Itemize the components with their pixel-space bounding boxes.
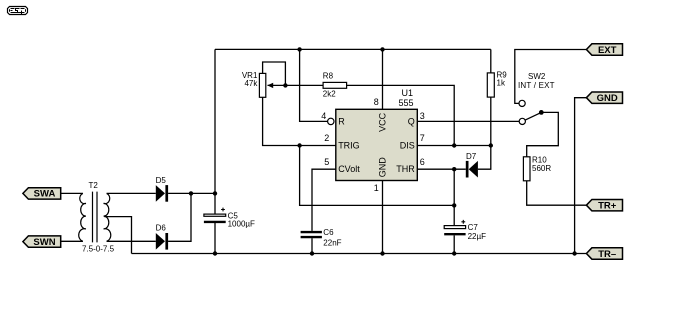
T2 primary coil bbox=[79, 193, 86, 241]
svg-text:D6: D6 bbox=[156, 224, 167, 233]
wire THR down to C7 bbox=[453, 169, 455, 225]
connector EXT bbox=[586, 44, 622, 55]
svg-text:560R: 560R bbox=[532, 164, 551, 173]
wire TRIG junction down to THR link bbox=[300, 146, 455, 206]
junction rail pin1 bbox=[380, 251, 384, 255]
connector TR+ bbox=[586, 200, 622, 211]
pin labels inside U1 bbox=[338, 112, 415, 177]
wire R8 to DIS bbox=[347, 85, 455, 145]
junction D5 line at C5 bbox=[213, 191, 217, 195]
wire GND tag drop bbox=[575, 98, 587, 254]
junction top rail at VCC bbox=[380, 47, 384, 51]
wire T2 bottom to D6 bbox=[107, 240, 156, 242]
svg-text:6: 6 bbox=[420, 157, 425, 167]
svg-text:SW2: SW2 bbox=[528, 72, 546, 81]
junction TRIG-THR link bbox=[452, 203, 456, 207]
wire CVolt to C6 bbox=[312, 169, 336, 231]
wire R9 top from V+ bbox=[490, 49, 492, 73]
svg-text:CVolt: CVolt bbox=[338, 164, 360, 174]
svg-text:7.5-0-7.5: 7.5-0-7.5 bbox=[82, 245, 115, 254]
svg-text:47k: 47k bbox=[244, 79, 258, 88]
wire SW2 common to R10 bbox=[527, 112, 559, 156]
wire T2 top to D5 bbox=[107, 192, 156, 194]
junction rail GND drop bbox=[572, 251, 576, 255]
junction THR tee bbox=[452, 167, 456, 171]
IC U1 555 timer body bbox=[336, 109, 418, 180]
svg-text:SWN: SWN bbox=[33, 237, 55, 248]
switch SW2 bbox=[519, 100, 525, 106]
pin numbers bbox=[321, 97, 425, 193]
wire D7 anode to R9 bbox=[478, 97, 491, 169]
connector GND bbox=[586, 92, 622, 103]
svg-text:VCC: VCC bbox=[378, 112, 388, 132]
resistor R9 bbox=[487, 73, 494, 97]
svg-text:22µF: 22µF bbox=[468, 232, 487, 241]
wire reset pin4 from V+ bbox=[300, 49, 328, 121]
junction rail C5 bbox=[213, 251, 217, 255]
resistor R8 bbox=[323, 82, 347, 88]
svg-text:R8: R8 bbox=[323, 71, 334, 80]
node V+ top rail wire bbox=[215, 48, 491, 50]
svg-text:R: R bbox=[338, 116, 345, 126]
T2 secondary coil bbox=[104, 193, 111, 241]
T2 core bbox=[93, 192, 98, 243]
pin 4 reset circle bbox=[328, 118, 334, 124]
junction DIS at R9 bbox=[489, 143, 493, 147]
wire V+ down to C5 bbox=[214, 49, 216, 213]
svg-text:3: 3 bbox=[420, 111, 425, 121]
svg-text:D5: D5 bbox=[156, 176, 167, 185]
svg-text:T2: T2 bbox=[89, 181, 99, 190]
svg-text:GND: GND bbox=[378, 157, 388, 178]
capacitor C6 bbox=[301, 231, 322, 233]
svg-text:TR–: TR– bbox=[598, 249, 616, 260]
svg-text:C7: C7 bbox=[468, 223, 479, 232]
SW2 blade bbox=[525, 112, 541, 120]
svg-text:1000µF: 1000µF bbox=[228, 220, 255, 229]
svg-text:GND: GND bbox=[597, 93, 618, 104]
svg-text:TR+: TR+ bbox=[598, 201, 617, 212]
svg-text:5: 5 bbox=[324, 157, 329, 167]
junction TRIG tee bbox=[297, 143, 301, 147]
capacitor C7 bbox=[444, 226, 465, 229]
wire C5 to ground rail bbox=[214, 223, 216, 254]
svg-text:SWA: SWA bbox=[34, 189, 56, 200]
svg-text:Q: Q bbox=[408, 116, 415, 126]
wire T2 centre tap to rail bbox=[104, 217, 131, 254]
wire R10 to TR+ bbox=[527, 181, 587, 205]
connector SWN bbox=[23, 236, 61, 247]
svg-text:2: 2 bbox=[324, 133, 329, 143]
svg-text:C6: C6 bbox=[323, 228, 334, 237]
svg-text:TRIG: TRIG bbox=[338, 141, 360, 151]
wire GND pin1 to rail bbox=[382, 181, 384, 254]
wire VR1 top to wiper loop bbox=[263, 62, 286, 85]
svg-text:INT / EXT: INT / EXT bbox=[518, 81, 555, 90]
connector TR- bbox=[586, 248, 622, 259]
svg-text:555: 555 bbox=[399, 98, 414, 108]
svg-text:2k2: 2k2 bbox=[323, 90, 336, 99]
junction rail C7 bbox=[452, 251, 456, 255]
junction VR1 wiper bbox=[283, 83, 287, 87]
wire D6 cathode up to D5 line bbox=[168, 193, 191, 241]
ESP logo bbox=[8, 7, 28, 16]
svg-text:U1: U1 bbox=[402, 88, 414, 98]
wire VCC pin8 from V+ bbox=[382, 49, 384, 109]
svg-text:22nF: 22nF bbox=[323, 238, 341, 247]
wire EXT to SW2 upper contact bbox=[515, 50, 587, 104]
wire DIS pin7 bbox=[417, 145, 491, 147]
wire C6 to rail bbox=[311, 238, 313, 253]
wire Q pin3 to SW2 bbox=[417, 120, 519, 122]
junction D5-D6 bbox=[189, 191, 193, 195]
svg-text:D7: D7 bbox=[466, 152, 477, 161]
svg-text:7: 7 bbox=[420, 133, 425, 143]
junction DIS at R8 drop bbox=[452, 143, 456, 147]
ground rail wire bbox=[132, 253, 587, 255]
svg-text:8: 8 bbox=[374, 97, 379, 107]
svg-text:1: 1 bbox=[374, 183, 379, 193]
capacitor C5 bbox=[204, 214, 226, 216]
svg-text:EXT: EXT bbox=[598, 45, 617, 56]
wire VR1 bottom to TRIG bbox=[263, 97, 336, 145]
connector SWA bbox=[23, 188, 61, 199]
junction SW2 common bbox=[539, 110, 544, 115]
diode D7 bbox=[469, 161, 478, 178]
junction top rail at reset bbox=[297, 47, 301, 51]
wire THR pin6 to D7 bbox=[417, 168, 466, 170]
wire SWA to T2 bbox=[61, 192, 83, 194]
svg-text:4: 4 bbox=[321, 111, 326, 121]
wire wiper to R8 bbox=[285, 84, 323, 86]
svg-text:DIS: DIS bbox=[400, 141, 415, 151]
diode D6 bbox=[156, 233, 165, 250]
VR1 wiper arrow bbox=[268, 84, 286, 86]
svg-text:1k: 1k bbox=[497, 79, 506, 88]
junction rail C6 bbox=[310, 251, 314, 255]
wire SWN to T2 bbox=[61, 240, 83, 242]
svg-text:THR: THR bbox=[396, 164, 415, 174]
potentiometer VR1 bbox=[259, 73, 265, 97]
resistor R10 bbox=[523, 157, 530, 181]
diode D5 bbox=[156, 185, 165, 202]
wire D5 cathode to C5 node bbox=[168, 192, 215, 194]
